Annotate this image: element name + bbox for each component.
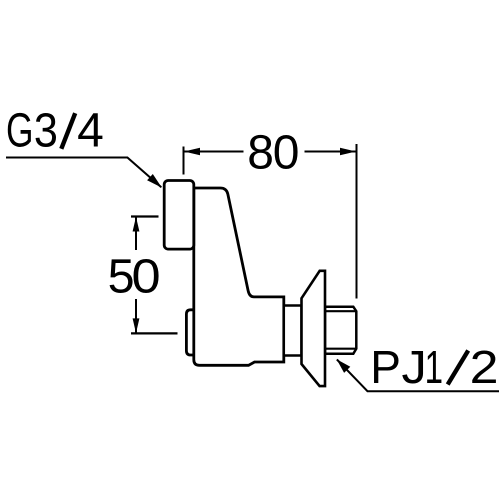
G3/4 leader arrowhead (147, 174, 162, 188)
dimension 80 line right segment (305, 151, 356, 153)
svg-text:0: 0 (132, 248, 161, 303)
PJ1/2 label (370, 341, 498, 393)
dimension 50 line upper segment (135, 218, 137, 251)
svg-text:G: G (6, 103, 34, 157)
dimension 80 extension line right (356, 144, 358, 299)
svg-text:2: 2 (470, 343, 499, 394)
svg-text:1: 1 (425, 343, 443, 393)
svg-text:J: J (402, 342, 427, 393)
dimension 50 line lower segment (135, 299, 137, 333)
svg-text:4: 4 (77, 105, 104, 158)
G3/4 leader line (6, 158, 161, 188)
dimension 80 text (247, 126, 299, 179)
dimension 50 tick top (131, 215, 159, 217)
svg-text:3: 3 (34, 103, 58, 157)
G3/4 label (6, 103, 104, 157)
dimension 80 extension line left (183, 147, 185, 175)
valve body (194, 188, 284, 365)
dimension 50 arrowhead down (133, 318, 140, 333)
PJ1/2 leader line (337, 360, 499, 392)
dimension 80 arrowhead left (184, 148, 200, 156)
inlet cap (lower-left bump) (186, 310, 196, 355)
dimension 80 line left segment (184, 151, 243, 153)
threaded nipple PJ1/2 (325, 307, 356, 354)
PJ1/2 leader arrowhead (337, 359, 351, 373)
G3/4 union nut (164, 181, 194, 250)
svg-text:0: 0 (273, 126, 300, 179)
dimension 50 text (108, 248, 161, 303)
dimension 80 arrowhead right (340, 148, 356, 156)
dimension 50 tick bottom (131, 332, 178, 334)
svg-text:8: 8 (247, 126, 274, 179)
escutcheon cone flange (302, 271, 326, 386)
outlet neck (284, 306, 302, 356)
dimension 50 arrowhead up (133, 217, 140, 232)
svg-text:P: P (370, 341, 401, 393)
